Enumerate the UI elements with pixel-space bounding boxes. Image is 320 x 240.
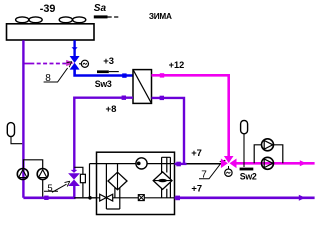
node on blue line xyxy=(122,73,126,77)
wire: magenta main supply to right xyxy=(237,162,315,165)
svg-text:Sa: Sa xyxy=(94,3,107,14)
pump bypass piping right xyxy=(254,145,283,164)
node on violet bottom line xyxy=(44,196,48,200)
sensor Sa dashes xyxy=(108,16,119,18)
node at AHU bottom right xyxy=(175,196,180,201)
flow arrow on violet return xyxy=(299,195,306,201)
pump P2 circle xyxy=(37,169,48,180)
actuator circle of valve 8 xyxy=(79,63,81,65)
sensor Sw3 bar xyxy=(97,70,109,73)
wire: blue drop from cooler to valve 8 xyxy=(73,40,75,56)
svg-text:+3: +3 xyxy=(103,55,114,66)
wire: black bottom line from valve 5 to AHU box xyxy=(74,197,96,199)
wire: violet through valve 5 down xyxy=(73,185,75,198)
AHU box xyxy=(97,152,175,214)
valve 5 bypass with balancing rect xyxy=(74,167,83,197)
leader arrowhead to valve Sw2 xyxy=(220,160,226,165)
pump P1 circle xyxy=(17,169,28,180)
fan F2 ellipses xyxy=(59,17,86,23)
AHU inner top line xyxy=(90,163,221,165)
flow arrow into valve Sw2 from top xyxy=(228,166,230,169)
coil diamond D2 xyxy=(153,172,172,190)
flow arrow on blue drop xyxy=(72,47,78,50)
bowtie valve inside AHU xyxy=(100,194,113,201)
svg-text:ЗИМА: ЗИМА xyxy=(149,12,172,21)
wire: violet return from HX to left xyxy=(74,98,133,171)
valve Sw2 three-way xyxy=(224,156,234,163)
damper cross inside AHU xyxy=(138,195,144,201)
pump bypass piping xyxy=(23,160,42,198)
node on magenta supply xyxy=(160,73,164,77)
svg-text:+7: +7 xyxy=(191,183,202,194)
air cooler unit body xyxy=(7,24,95,40)
fan F1 ellipses xyxy=(16,17,43,23)
node on violet return xyxy=(122,96,126,100)
valve V5 bowtie xyxy=(69,174,79,186)
sensor Sw3 tail xyxy=(109,71,119,73)
svg-text:-39: -39 xyxy=(40,3,56,15)
coil D1 lower legs and loop xyxy=(106,188,119,210)
violet stub and node at AHU top right xyxy=(175,163,187,165)
sensor capsule left xyxy=(7,123,14,137)
svg-text:Sw3: Sw3 xyxy=(95,79,112,89)
svg-text:Sw2: Sw2 xyxy=(240,172,257,182)
svg-text:+8: +8 xyxy=(106,104,118,115)
flow arrow above valve 5 xyxy=(71,170,78,173)
pump P4 circle xyxy=(262,157,274,169)
svg-text:+12: +12 xyxy=(169,60,185,70)
AHU inner bottom line xyxy=(97,197,175,199)
wire: black line from AHU to valve Sw2 xyxy=(187,163,221,165)
wire: blue below valve 8 turning right to heat exchanger xyxy=(75,68,133,76)
leader arrowhead to valve 5 xyxy=(65,181,70,186)
wire: violet from HX bottom right down xyxy=(152,98,185,164)
heat exchanger HX rect xyxy=(133,70,152,104)
coil diamond D2 duct xyxy=(162,157,171,198)
actuator circle of valve Sw2 xyxy=(225,169,232,176)
flow arrow on magenta main xyxy=(300,160,307,166)
wire: black elbow from AHU top line down to bottom line xyxy=(89,164,91,198)
wire: violet bottom main line xyxy=(23,197,75,200)
svg-text:+7: +7 xyxy=(191,147,202,158)
AHU fan circle xyxy=(136,158,147,169)
valve V8 bowtie xyxy=(70,56,79,69)
sensor Sa bar xyxy=(94,15,108,18)
junction dot xyxy=(88,196,92,200)
wire: violet bottom return to right xyxy=(175,197,315,200)
node on violet line right of HX xyxy=(160,96,164,100)
dashed control line to valve 8 xyxy=(25,63,67,65)
magenta arrow into valve 8 xyxy=(66,60,74,66)
wire: magenta supply from HX to valve Sw2 xyxy=(152,75,229,156)
leader arrowhead to valve 8 xyxy=(66,62,71,68)
pump P3 circle xyxy=(262,139,274,151)
sensor Sw2 bar xyxy=(240,168,254,171)
svg-text:5: 5 xyxy=(47,183,52,194)
wire: violet drop from cooler left xyxy=(22,40,24,198)
coil diamond D1 xyxy=(106,164,117,209)
heat exchanger diagonal xyxy=(133,70,152,104)
sensor capsule right xyxy=(241,120,248,133)
